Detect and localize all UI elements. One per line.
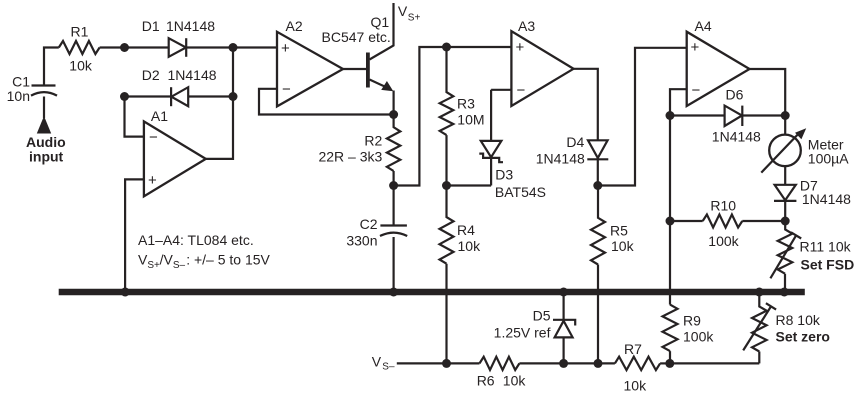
svg-text:S+: S+ [147,260,160,271]
wire: D6 node to meter [784,116,786,136]
svg-text:BAT54S: BAT54S [495,184,546,200]
wire: D6 line [670,114,785,116]
node: VS-/D5 [559,359,568,368]
svg-text:R1: R1 [71,24,89,40]
svg-text:1N4148: 1N4148 [802,191,851,207]
wire: D2 line [125,95,234,97]
wire: C1 to audio arrow [43,97,45,119]
svg-text:D2: D2 [142,67,160,83]
diode D1 [169,38,186,57]
svg-text:−: − [692,82,701,99]
wire: VS- line [397,362,480,364]
svg-text:S+: S+ [408,13,421,24]
wire: A4 output down to D6 node [750,69,786,116]
preset R8 [752,294,767,363]
wire: A3 output down through D4 [574,69,598,186]
node: D6 right [781,111,790,120]
diode D2 [171,87,188,106]
capacitor C1 [32,84,56,86]
node: VS-/R5 [594,359,603,368]
resistor R3 [440,47,454,186]
wire: A3 inverting input [491,89,511,91]
resistor R4 [440,186,454,364]
svg-text:Q1: Q1 [371,14,390,30]
svg-text:A1: A1 [151,108,168,124]
svg-text:D4: D4 [566,134,584,150]
resistor R9 [663,305,678,364]
wire: A1 inverting input [125,97,145,137]
svg-text:V: V [398,3,408,19]
wire: D4 node to A4 + input [598,48,687,186]
node: Q1 emitter/R2 [389,110,398,119]
node: R1/D1 [120,43,129,52]
svg-text:S–: S– [382,361,395,372]
wire: Q1 emitter down [393,91,395,115]
audio input arrow [37,116,51,134]
preset R11 [778,221,793,292]
0V rail [59,289,805,296]
svg-text:−: − [282,81,291,98]
svg-text:R11 10k: R11 10k [800,239,852,255]
svg-text:D6: D6 [726,87,744,103]
svg-text:+: + [516,39,525,56]
svg-text:R3: R3 [457,96,475,112]
resistor R1 [59,41,100,54]
wire: VS- line right [660,362,670,364]
svg-text:A3: A3 [518,18,535,34]
svg-text:10k: 10k [69,58,93,74]
capacitor C2 [393,186,395,225]
node: VS-/R4 [442,359,451,368]
svg-text:R9: R9 [683,313,701,329]
svg-text:/V: /V [160,252,174,268]
resistor R5 [591,186,605,364]
node: D1/A1 out [229,43,238,52]
diode D6 [725,106,742,126]
svg-text:R8 10k: R8 10k [776,312,821,328]
svg-text:100k: 100k [683,329,714,345]
svg-text:+: + [148,172,157,189]
svg-text:100k: 100k [708,233,739,249]
node: R10 right [781,217,790,226]
svg-text:D3: D3 [495,166,513,182]
wire: R1 to A2 + input (D1 line) [100,46,277,48]
op-amp A4 [687,32,750,106]
wire: A2 feedback to Q1 emitter [259,89,394,115]
wire: C1 top stem to R1 corner [44,48,59,85]
svg-text:R6: R6 [477,373,495,389]
op-amp A3 [511,31,573,106]
svg-text:input: input [29,148,64,164]
svg-text:10M: 10M [457,112,484,128]
node: R10 left [666,217,675,226]
svg-text:1N4148: 1N4148 [166,18,215,34]
resistor R6 [480,357,520,370]
svg-text:D5: D5 [533,308,551,324]
wire: R10 line right segment [742,220,785,222]
svg-text:1N4148: 1N4148 [168,67,217,83]
svg-text:1N4148: 1N4148 [536,151,585,167]
node: R2 bottom/C2 [389,181,398,190]
svg-text:R5: R5 [610,223,628,239]
svg-text:A2: A2 [286,18,303,34]
svg-text:10k: 10k [611,238,635,254]
svg-text:R2: R2 [364,133,382,149]
svg-text:−: − [517,82,526,99]
wire: A2 output to Q1 base [343,68,366,70]
svg-text:S–: S– [173,260,186,271]
wire: VS- line middle [519,362,615,364]
svg-text:V: V [372,353,382,369]
wire: D3 branch [447,90,492,186]
svg-text:Set FSD: Set FSD [801,256,855,272]
wire: A1 output up to D1/D2 [206,48,233,159]
op-amp A1 [144,121,206,196]
wire: A1 non-inverting input to 0V rail [125,179,144,291]
svg-text:22R – 3k3: 22R – 3k3 [318,148,382,164]
svg-text:R10: R10 [710,198,736,214]
node: rail/R8 [755,288,764,297]
svg-text:1N4148: 1N4148 [712,128,761,144]
svg-text:R4: R4 [457,222,475,238]
node: D2/A1 out [229,92,238,101]
svg-text:10k: 10k [503,373,527,389]
diode D3 (Schottky) [481,141,502,157]
node: D4/R5 [593,181,602,190]
node: rail/A1+ [121,288,130,297]
svg-text:D1: D1 [142,18,160,34]
meter M1 [769,135,801,167]
diode D7 [775,185,796,200]
node: R7/R9/R8 [665,359,674,368]
svg-text:: +/– 5 to 15V: : +/– 5 to 15V [186,252,270,268]
svg-text:100µA: 100µA [808,150,849,166]
svg-text:1.25V ref: 1.25V ref [494,325,551,341]
diode D4 [588,140,608,158]
svg-text:A4: A4 [695,18,712,34]
svg-text:A1–A4: TL084 etc.: A1–A4: TL084 etc. [138,232,254,248]
node: rail/R11 [780,288,789,297]
resistor R7 [615,357,660,370]
node: R3/R4/D3 [442,181,451,190]
wire: R2 bottom jog up to A3 + line [394,47,512,186]
resistor R10 [703,215,743,228]
vertical wire x=670 (D6 node - R10 - R9) [669,116,671,305]
wire: bottom right (R8/R9 node) [670,362,760,364]
transistor Q1 [366,53,370,88]
node: rail/D5 [559,288,568,297]
node: rail/C2 [389,288,398,297]
wire: meter to D7 [784,166,786,200]
wire: A4 inverting input [670,89,687,115]
wire: R10 line left segment [670,220,703,222]
svg-text:C2: C2 [360,216,378,232]
svg-text:10k: 10k [458,238,482,254]
diode D5 (1.25V ref) [562,295,564,363]
svg-text:Set zero: Set zero [776,329,830,345]
svg-text:10n: 10n [7,88,30,104]
svg-text:330n: 330n [346,233,377,249]
svg-text:R7: R7 [624,341,642,357]
op-amp A2 [277,32,343,107]
wire: D7 to R10 node [784,201,786,221]
resistor R2 [387,115,400,186]
svg-text:BC547 etc.: BC547 etc. [322,29,391,45]
svg-text:+: + [281,40,290,57]
node: D2/A1 inv [120,92,129,101]
svg-text:10k: 10k [624,378,648,394]
node: D6 left [666,111,675,120]
node: R3 top [442,43,451,52]
svg-text:+: + [691,39,700,56]
svg-text:−: − [149,129,158,146]
